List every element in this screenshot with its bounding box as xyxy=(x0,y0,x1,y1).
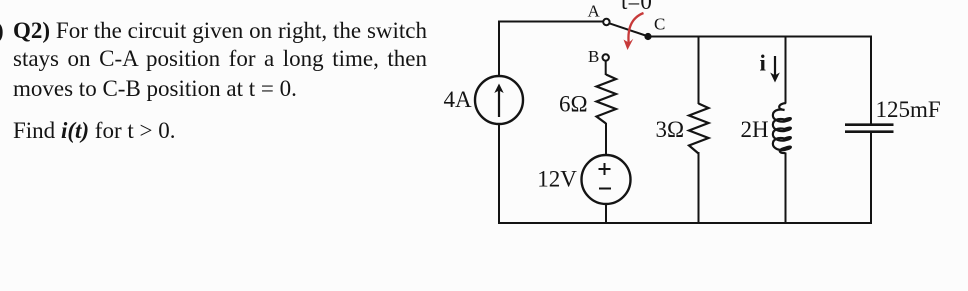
current source 4A circle xyxy=(475,76,523,124)
inductor 2H coil xyxy=(773,103,791,153)
question text line 1 xyxy=(13,17,427,45)
plus sign inside 12V source xyxy=(599,163,611,175)
arrowhead of i current arrow xyxy=(770,73,780,83)
svg-text:125mF: 125mF xyxy=(876,97,941,122)
wire 2H branch upper xyxy=(785,37,787,104)
svg-text:i: i xyxy=(760,51,767,76)
svg-text:6Ω: 6Ω xyxy=(559,92,588,117)
svg-text:B: B xyxy=(588,47,599,66)
wire capacitor branch lower xyxy=(870,133,872,225)
red arrowhead of switch motion arc xyxy=(624,39,634,50)
wire left vertical upper xyxy=(498,21,500,77)
capacitor top plate xyxy=(845,123,894,126)
partial ")" cut at left edge xyxy=(0,17,4,45)
wire 3-ohm branch lower xyxy=(698,152,700,224)
switch blade A to C xyxy=(609,23,645,35)
question text line 4 xyxy=(13,117,175,145)
wire top-left horizontal xyxy=(499,21,603,23)
wire bottom horizontal xyxy=(498,222,872,224)
wire capacitor branch upper xyxy=(870,37,872,125)
wire 12V source to bottom xyxy=(605,203,607,224)
voltage source 12V circle xyxy=(582,155,631,204)
question text line 2 xyxy=(13,45,427,73)
svg-text:2H: 2H xyxy=(741,117,769,142)
question text line 3 xyxy=(13,75,297,103)
resistor 6ohm zigzag xyxy=(597,75,617,124)
arrowhead of 4A source arrow xyxy=(494,84,503,94)
capacitor bottom plate xyxy=(845,130,894,133)
svg-text:C: C xyxy=(654,15,665,34)
wire left vertical lower xyxy=(498,124,500,224)
switch terminal A circle xyxy=(603,19,609,25)
resistor 3ohm zigzag xyxy=(689,104,709,154)
wire 3-ohm branch upper xyxy=(698,37,700,105)
wire top-right horizontal from C to capacitor xyxy=(648,36,872,38)
switch common node C dot xyxy=(644,33,651,40)
arrow inside 4A source xyxy=(498,89,500,117)
wire 2H branch lower xyxy=(785,153,787,225)
wire B down to 6-ohm resistor xyxy=(605,61,607,75)
switch terminal B circle xyxy=(603,54,609,60)
svg-text:3Ω: 3Ω xyxy=(656,117,685,142)
wire 6ohm to 12V source xyxy=(605,123,607,156)
svg-text:A: A xyxy=(588,2,601,21)
current label arrow i down xyxy=(774,56,776,76)
minus sign inside 12V source xyxy=(599,188,611,190)
red switch motion arc xyxy=(628,13,643,43)
svg-text:12V: 12V xyxy=(537,167,577,192)
svg-text:4A: 4A xyxy=(444,87,473,112)
svg-text:t=0: t=0 xyxy=(621,0,652,14)
